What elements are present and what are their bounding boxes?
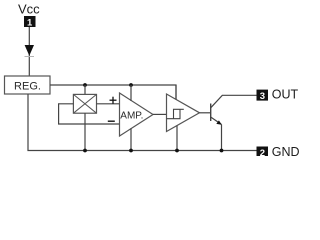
- plus sign amp input: [110, 97, 117, 104]
- wire hall bottom to ground rail: [84, 113, 86, 150]
- transistor Q1 emitter with arrow: [211, 117, 222, 151]
- wire hall left output wrap to amp minus input: [59, 104, 120, 124]
- svg-text:OUT: OUT: [272, 87, 299, 101]
- svg-text:1: 1: [27, 17, 33, 28]
- node junction dot amp ground: [129, 149, 133, 153]
- pin 3: [257, 90, 269, 102]
- pin 1: [24, 16, 36, 28]
- wire amp supply tap: [130, 85, 132, 101]
- wire ground rail: [28, 94, 257, 151]
- pin 2: [257, 147, 269, 159]
- hall element X1 crossed box: [73, 94, 96, 113]
- wire schmitt supply tap: [175, 85, 177, 100]
- wire schmitt output to transistor base: [200, 112, 211, 114]
- wire amp ground tap: [130, 128, 132, 150]
- wire hall right output to amp plus input: [97, 103, 120, 105]
- transistor Q1 base bar: [210, 104, 212, 122]
- svg-text:2: 2: [260, 148, 265, 156]
- wire hall element top supply: [84, 85, 86, 94]
- minus sign amp input: [108, 120, 115, 122]
- svg-text:Vcc: Vcc: [18, 2, 40, 17]
- node junction dot amp top: [129, 83, 133, 87]
- svg-text:AMP.: AMP.: [120, 111, 143, 122]
- node junction dot emitter ground: [220, 149, 224, 153]
- wire Vcc pin1 to REG: [28, 27, 30, 76]
- schmitt trigger U2: [167, 94, 200, 132]
- arrowhead into REG: [25, 45, 34, 56]
- node junction dot hall top: [83, 83, 87, 87]
- svg-text:REG.: REG.: [14, 81, 41, 93]
- wire amp output to schmitt input: [153, 113, 167, 115]
- node junction dot schmitt ground: [175, 149, 179, 153]
- wire schmitt ground tap: [176, 126, 178, 151]
- node junction dot hall ground: [83, 149, 87, 153]
- tick at arrow tip: [25, 56, 35, 58]
- svg-text:3: 3: [260, 91, 265, 102]
- svg-text:GND: GND: [272, 145, 300, 156]
- regulator REG.: [5, 76, 51, 94]
- op-amp AMP.: [120, 93, 154, 136]
- wire top rail from REG to schmitt tap: [50, 85, 176, 100]
- transistor Q1 collector: [211, 95, 257, 108]
